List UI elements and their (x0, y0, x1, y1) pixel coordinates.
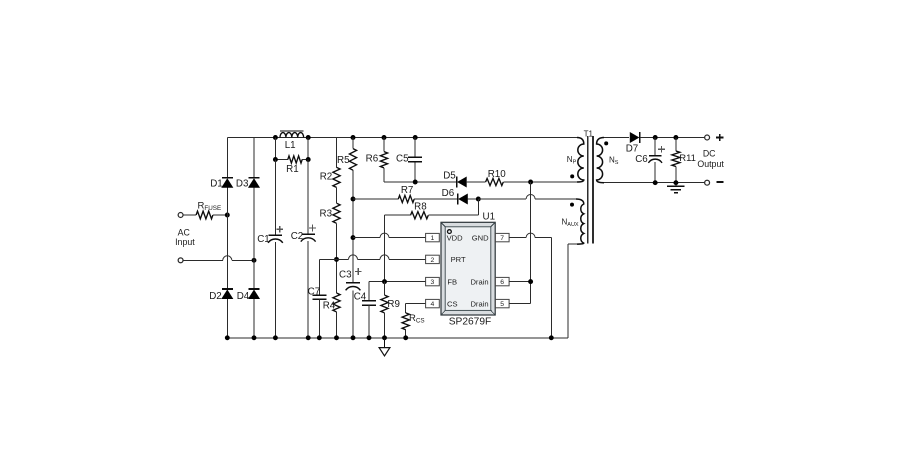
wire top rail (227, 137, 577, 139)
wire pin 7 GND with hop over drain line (509, 237, 526, 239)
svg-text:R9: R9 (387, 299, 400, 310)
svg-text:D6: D6 (442, 188, 455, 199)
node C6 bottom (653, 180, 658, 185)
diode D5 (456, 177, 458, 188)
node RCS bottom (403, 335, 408, 340)
node drain to clamp junction (528, 180, 533, 185)
diode D4 (249, 288, 260, 290)
wire L1 right leg down (307, 138, 309, 160)
svg-text:R10: R10 (488, 169, 507, 180)
svg-text:R3: R3 (320, 209, 333, 220)
wire R2-R3-R4 leg (336, 138, 338, 168)
svg-text:4: 4 (431, 301, 435, 308)
svg-text:AC: AC (178, 227, 191, 237)
svg-text:D5: D5 (443, 171, 456, 182)
node bridge bottom right (252, 335, 257, 340)
pin 1 indicator circle (448, 230, 452, 234)
node R5 top on rail (351, 135, 356, 140)
svg-text:2: 2 (431, 257, 435, 264)
node D6 cathode to R8 (467, 198, 478, 200)
capacitor C5 (408, 156, 422, 158)
wire secondary top to D7 (604, 137, 629, 139)
node RFUSE to D1-D2 leg (225, 213, 230, 218)
svg-text:D2: D2 (209, 291, 222, 302)
resistor R3 (333, 203, 340, 223)
wire PRT row with hops (319, 258, 348, 260)
pin 6 Drain (495, 277, 509, 285)
diode D3 (249, 177, 260, 179)
node L1 left on rail (273, 135, 278, 140)
diode D6 (457, 194, 459, 205)
svg-text:Input: Input (175, 237, 195, 247)
wire CS row (406, 303, 426, 305)
svg-text:C2: C2 (291, 231, 304, 242)
svg-text:VDD: VDD (447, 233, 464, 242)
pin 2 PRT (426, 255, 440, 263)
node bridge bottom left (225, 335, 230, 340)
node R5 to R7 junction (351, 197, 356, 202)
svg-text:T1: T1 (584, 129, 594, 138)
svg-text:L1: L1 (285, 140, 296, 151)
wire drain line from clamp node down (530, 182, 532, 304)
resistor R11 (675, 138, 677, 152)
node R6 top on rail (382, 135, 387, 140)
svg-text:R2: R2 (320, 172, 333, 183)
DC output minus terminal (705, 180, 710, 185)
svg-text:C4: C4 (354, 292, 367, 303)
capacitor C7 (318, 259, 320, 295)
svg-text:Drain: Drain (470, 277, 488, 286)
node C7 bottom (317, 335, 322, 340)
resistor R9 (384, 282, 386, 296)
svg-text:C3: C3 (339, 270, 352, 281)
node C6 top (653, 135, 658, 140)
transformer auxiliary NAUX (576, 199, 584, 244)
wire D6 row to NAUX with hop over drain line (478, 198, 526, 200)
svg-text:1: 1 (431, 235, 435, 242)
resistor RFUSE (183, 214, 196, 216)
diode D1 (222, 177, 233, 179)
node R1 right (306, 157, 311, 162)
wire bridge left leg D1-D2 (226, 138, 228, 178)
resistor R5 (349, 149, 356, 171)
wire R5-C3 leg (352, 138, 354, 149)
svg-text:PRT: PRT (451, 255, 466, 264)
resistor R7 (353, 198, 398, 200)
earth ground at output (675, 183, 677, 187)
svg-text:C6: C6 (635, 154, 648, 165)
capacitor C4 (368, 282, 370, 301)
svg-text:D7: D7 (626, 143, 639, 154)
svg-text:CS: CS (447, 299, 458, 308)
resistor R4 (333, 293, 340, 312)
NAUX phase dot (570, 203, 574, 207)
resistor R6 (380, 152, 387, 168)
svg-text:FB: FB (447, 277, 457, 286)
wire R6 leg (383, 138, 385, 152)
svg-text:U1: U1 (483, 212, 496, 223)
wire pin 5 to drain line (509, 303, 530, 305)
node L1 right on rail (306, 135, 311, 140)
svg-text:R5: R5 (337, 155, 350, 166)
svg-text:R1: R1 (286, 164, 299, 175)
wire NAUX bottom return (567, 244, 569, 338)
wire L1 left leg down (274, 138, 276, 160)
wire secondary bottom to output minus (604, 182, 704, 184)
svg-text:R7: R7 (401, 185, 414, 196)
transformer primary NP (577, 138, 584, 183)
pin 5 Drain (495, 299, 509, 307)
op-amp U1 SP2679F body (441, 222, 495, 315)
svg-text:DC: DC (703, 148, 716, 158)
node R4 bottom (334, 335, 339, 340)
svg-text:R6: R6 (366, 153, 379, 164)
wire C2 leg (307, 160, 309, 235)
node R11 top (673, 135, 678, 140)
capacitor C1 (269, 234, 283, 236)
wire R8 to FB node (384, 215, 386, 281)
svg-text:7: 7 (500, 235, 504, 242)
node C5 top on rail (413, 135, 418, 140)
svg-text:5: 5 (500, 301, 504, 308)
resistor R8 (477, 199, 479, 215)
diode D7 (639, 132, 641, 143)
svg-text:SP2679F: SP2679F (449, 317, 491, 328)
pin 1 VDD (426, 233, 440, 241)
wire VDD row with hop over R9 line (353, 237, 380, 239)
svg-text:R4: R4 (323, 300, 336, 311)
NS phase dot (604, 141, 608, 145)
svg-text:6: 6 (500, 279, 504, 286)
DC output plus terminal (705, 135, 710, 140)
node C5 bottom on D5 row (413, 180, 418, 185)
wire C1 leg (274, 160, 276, 236)
wire bottom rail (227, 337, 568, 339)
node R11 bottom (673, 180, 678, 185)
node AC bottom to D3-D4 leg (252, 258, 257, 263)
node C1 bottom (273, 335, 278, 340)
wire snubber bottom to D5 row (384, 181, 457, 183)
pin 3 FB (426, 277, 440, 285)
wire bridge right leg D3-D4 (253, 138, 255, 178)
resistor RCS (405, 304, 407, 313)
svg-text:GND: GND (472, 233, 489, 242)
node C4 bottom (367, 335, 372, 340)
capacitor C3 (346, 282, 360, 284)
svg-text:Drain: Drain (470, 299, 488, 308)
pin 4 CS (426, 299, 440, 307)
transformer secondary NS (597, 138, 604, 183)
ground arrow (384, 338, 386, 348)
capacitor C2 (301, 233, 315, 235)
svg-text:D3: D3 (236, 178, 249, 189)
wire pin 6 to drain line (509, 281, 530, 283)
node FB to R9 (382, 279, 387, 284)
svg-text:3: 3 (431, 279, 435, 286)
AC input bottom terminal (178, 258, 183, 263)
svg-text:R8: R8 (414, 201, 427, 212)
svg-text:Output: Output (697, 159, 724, 169)
svg-text:C1: C1 (257, 234, 270, 245)
inductor L1 (280, 130, 304, 132)
svg-text:D4: D4 (237, 291, 250, 302)
svg-text:R11: R11 (679, 153, 696, 164)
AC input top terminal (178, 213, 183, 218)
diode D2 (222, 288, 233, 290)
NP phase dot (570, 174, 574, 178)
svg-text:C7: C7 (308, 287, 321, 298)
node R9 bottom and signal ground (382, 335, 387, 340)
resistor R2 (333, 167, 340, 187)
wire AC bottom with hop over D1-D2 leg (183, 259, 223, 261)
resistor R10 (466, 181, 485, 183)
wire C5 leg (414, 138, 416, 158)
node R1 left (273, 157, 278, 162)
wire FB row (369, 281, 426, 283)
transformer T1 core (587, 136, 589, 243)
node C3 bottom (351, 335, 356, 340)
node R5 to VDD junction (351, 235, 356, 240)
capacitor C6 (654, 138, 656, 156)
node C2 bottom (306, 335, 311, 340)
wire D7 to output plus (640, 137, 705, 139)
svg-text:D1: D1 (210, 178, 223, 189)
node GND drop on bottom rail (549, 335, 554, 340)
pin 7 GND (495, 233, 509, 241)
resistor R1 parallel with L1 (275, 159, 287, 161)
node R3-R4 junction to PRT (334, 257, 339, 262)
svg-text:C5: C5 (396, 154, 409, 165)
